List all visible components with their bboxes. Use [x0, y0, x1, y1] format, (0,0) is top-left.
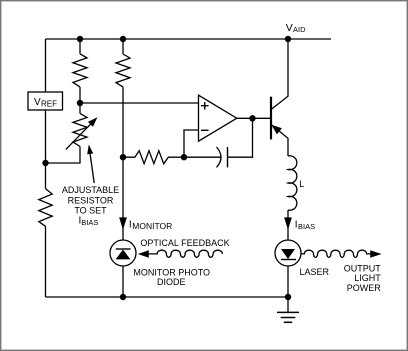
svg-text:LIGHT: LIGHT — [354, 273, 381, 283]
svg-text:RESISTOR: RESISTOR — [68, 195, 114, 205]
svg-text:LASER: LASER — [300, 267, 330, 277]
svg-text:ADJUSTABLE: ADJUSTABLE — [62, 185, 119, 195]
svg-text:OPTICAL FEEDBACK: OPTICAL FEEDBACK — [140, 238, 229, 248]
svg-text:MONITOR: MONITOR — [132, 221, 172, 231]
svg-text:MONITOR PHOTO: MONITOR PHOTO — [133, 267, 210, 277]
svg-text:REF: REF — [41, 100, 57, 109]
svg-text:I: I — [129, 219, 132, 230]
svg-text:POWER: POWER — [347, 283, 382, 293]
svg-text:DIODE: DIODE — [157, 277, 186, 287]
svg-text:BIAS: BIAS — [298, 222, 315, 231]
svg-text:AID: AID — [293, 25, 306, 34]
svg-text:TO SET: TO SET — [74, 205, 107, 215]
svg-text:V: V — [34, 97, 41, 108]
svg-text:BIAS: BIAS — [81, 218, 98, 227]
svg-text:OUTPUT: OUTPUT — [344, 264, 382, 274]
svg-text:L: L — [299, 179, 304, 189]
svg-text:V: V — [286, 22, 293, 34]
